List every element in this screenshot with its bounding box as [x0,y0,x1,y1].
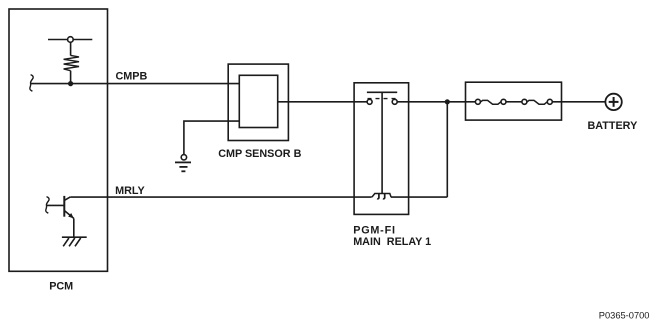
wire MRLY [70,196,371,198]
wire break squiggle (MRLY) [46,197,49,214]
node junction to coil feed [445,99,450,104]
relay contact circle left [367,99,372,104]
CMP sensor inner box [239,75,277,127]
chassis ground bar [62,236,87,238]
power terminal circle [68,37,74,43]
ground bar 2 [179,166,187,168]
wire sensor ground [184,121,239,155]
battery plus sign [609,101,619,103]
emitter arrowhead [68,213,74,218]
fuse 2 element [527,100,547,104]
chassis ground hatch 2 [69,238,75,246]
wire fuse box to battery [552,101,605,103]
fuse 1 element [481,100,501,104]
transistor collector [64,197,70,201]
power terminal bar [48,39,92,41]
relay actuation dashed line [368,98,397,100]
fuse 2 circle right [547,99,552,104]
svg-text:BATTERY: BATTERY [588,120,639,132]
chassis ground hatch 1 [63,238,69,246]
relay plunger line [381,92,383,194]
wire resistor to node [70,71,72,84]
wire sensor output [278,101,367,103]
svg-text:CMPB: CMPB [116,70,148,82]
wire relay output to fuse box [397,101,476,103]
ground terminal circle [181,155,186,160]
transistor Q base bar [63,196,65,217]
wire break squiggle (CMPB) [30,75,33,92]
svg-text:CMP SENSOR B: CMP SENSOR B [218,148,301,160]
fuse box [466,82,562,120]
svg-text:MAIN RELAY 1: MAIN RELAY 1 [353,236,431,248]
svg-text:P0365-0700: P0365-0700 [599,310,650,320]
wire CMPB [31,83,240,85]
transistor emitter [64,211,74,219]
node CMPB junction [68,81,73,86]
PCM box [9,9,108,271]
relay coil [372,194,391,199]
wire to relay coil right [391,196,447,198]
svg-text:PCM: PCM [49,281,73,293]
wire terminal to resistor [70,42,72,55]
chassis ground hatch 3 [75,238,81,246]
svg-text:MRLY: MRLY [115,185,145,197]
relay movable contact bar [367,91,397,93]
battery circle [605,94,621,110]
wire junction down [446,102,448,197]
resistor R (pull-up) [64,55,79,70]
fuse 1 circle left [475,99,480,104]
ground bar 1 [175,161,191,163]
relay box [354,83,409,215]
svg-text:PGM-FI: PGM-FI [353,225,396,237]
CMP sensor outer box [228,64,288,140]
fuse 2 circle left [522,99,527,104]
wire emitter down [73,218,75,237]
transistor base wire [47,204,65,206]
fuse 1 circle right [501,99,506,104]
relay contact circle right [392,99,397,104]
wire between fuses [506,101,522,103]
ground bar 3 [181,170,185,172]
